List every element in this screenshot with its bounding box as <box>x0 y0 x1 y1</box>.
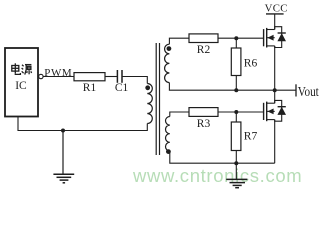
svg-text:R3: R3 <box>197 118 211 130</box>
resistor R3 <box>189 108 218 117</box>
resistor R2 <box>189 34 218 43</box>
mosfet Q2 <box>264 102 267 122</box>
node C junction <box>273 88 277 92</box>
transformer secondary S2 (bottom) winding <box>166 117 170 151</box>
wire C1 to transformer primary <box>122 77 147 84</box>
svg-text:R7: R7 <box>244 131 258 143</box>
wire Q2 source to bottom rail <box>274 120 276 164</box>
primary phase dot <box>145 85 150 90</box>
Q1 arrow <box>267 35 273 41</box>
ground G2 stem <box>235 163 237 179</box>
wire node D to R7 <box>235 112 237 122</box>
wire R2 to Q1 gate <box>218 37 264 39</box>
wire Q1 source to Vout rail <box>274 46 276 90</box>
VCC rail bar <box>266 13 284 15</box>
svg-text:Vout: Vout <box>298 84 319 99</box>
wire R7 to bottom rail <box>235 151 237 164</box>
node D junction <box>234 110 238 114</box>
node E junction <box>234 161 238 165</box>
resistor R7 <box>231 122 241 151</box>
svg-text:PWM: PWM <box>44 67 72 79</box>
IC label 电源 (hand-drawn glyphs) <box>12 63 32 74</box>
S1 phase dot <box>167 46 172 51</box>
resistor R6 <box>231 48 241 76</box>
transformer secondary S1 (top) winding <box>165 44 170 82</box>
wire S2 bottom to bottom rail <box>170 151 275 163</box>
Q2 arrow <box>267 109 273 115</box>
resistor R1 <box>74 73 105 81</box>
junction ground node <box>61 129 65 133</box>
power IC U1 box <box>5 48 38 117</box>
wire S1 bottom to Vout rail <box>169 83 296 91</box>
svg-text:R1: R1 <box>83 82 97 94</box>
wire primary bottom to ground rail <box>18 117 147 131</box>
transformer core <box>156 43 159 155</box>
wire PWM to R1 <box>43 76 74 78</box>
wire R1 to C1 <box>105 76 117 78</box>
Vout terminal tick <box>295 84 297 96</box>
svg-text:www.cntronics.com: www.cntronics.com <box>132 165 302 186</box>
node B junction <box>234 88 238 92</box>
node A junction <box>234 36 238 40</box>
mosfet Q1 <box>264 28 267 48</box>
wire S1 top to R2 <box>169 38 189 44</box>
wire VCC to Q1 drain <box>274 14 276 30</box>
Q2 body diode <box>277 107 286 115</box>
wire Q2 drain to Vout rail <box>274 90 276 103</box>
svg-text:VCC: VCC <box>265 2 288 14</box>
Q1 body diode <box>277 33 286 41</box>
svg-text:C1: C1 <box>115 82 129 94</box>
svg-text:IC: IC <box>15 80 27 92</box>
capacitor C1 <box>117 70 122 83</box>
transformer T1 primary winding <box>147 84 152 124</box>
wire node A to R6 <box>235 38 237 48</box>
svg-text:R6: R6 <box>244 58 258 70</box>
wire S2 top / R3 / Q2 gate <box>170 112 264 117</box>
PWM terminal circle <box>39 74 43 78</box>
ground G1 stem <box>62 131 64 175</box>
wire R6 to Vout rail <box>235 76 237 91</box>
S2 phase dot <box>166 149 171 154</box>
ground G2 symbol <box>226 179 247 187</box>
svg-text:R2: R2 <box>197 44 211 56</box>
ground G1 symbol <box>53 174 74 183</box>
